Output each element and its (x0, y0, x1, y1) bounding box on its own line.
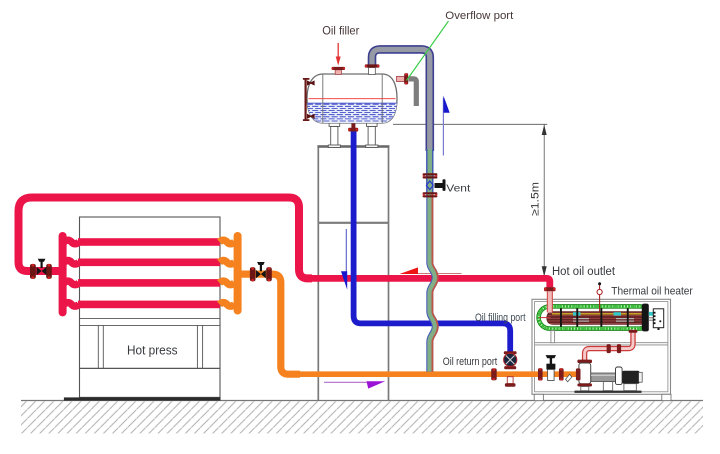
svg-text:≥1.5m: ≥1.5m (530, 182, 542, 216)
svg-text:Hot oil outlet: Hot oil outlet (552, 266, 616, 278)
svg-text:Oil filler: Oil filler (322, 24, 359, 37)
svg-text:Oil filling port: Oil filling port (475, 312, 526, 324)
svg-text:Oil return port: Oil return port (443, 356, 498, 368)
svg-text:Hot press: Hot press (127, 344, 178, 358)
svg-text:Vent: Vent (446, 184, 470, 195)
svg-text:Overflow port: Overflow port (445, 10, 514, 22)
svg-text:Thermal oil heater: Thermal oil heater (611, 285, 693, 297)
